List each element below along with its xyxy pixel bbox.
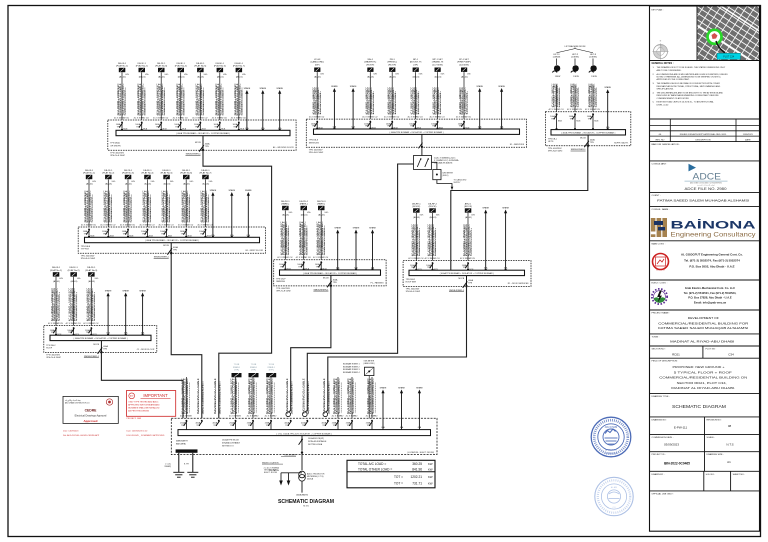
svg-text:TPN: TPN [68,332,72,334]
svg-text:AHU-1: AHU-1 [465,202,472,205]
svg-text:N.T.S: N.T.S [726,442,733,446]
svg-text:DB-1F-1: DB-1F-1 [69,267,78,269]
svg-text:BAR (MEB): BAR (MEB) [176,443,186,446]
svg-text:TPN: TPN [181,425,185,427]
svg-text:SPARE: SPARE [604,86,611,89]
svg-text:(A1-01): (A1-01) [86,182,93,185]
svg-text:(13KW): (13KW) [553,57,561,59]
svg-text:SPARE: SPARE [416,387,423,390]
svg-text:DRAWN BY :: DRAWN BY : [652,473,665,476]
svg-text:2x(4C X 185MM2) XLPE: 2x(4C X 185MM2) XLPE [291,384,293,415]
svg-text:KW: KW [428,467,433,471]
svg-text:LIFT MACHINE ROOM: LIFT MACHINE ROOM [565,45,586,48]
svg-text:P.O. Box 5552, Abu Dhabi - U.A: P.O. Box 5552, Abu Dhabi - U.A.E [689,264,734,268]
svg-text:WITH ADJUSTABLE: WITH ADJUSTABLE [308,440,327,443]
svg-text:DRAWING TITLE :: DRAWING TITLE : [652,395,671,398]
svg-text:1600A MCCB(4P): 1600A MCCB(4P) [308,437,324,440]
svg-text:TPN: TPN [86,332,90,334]
svg-text:( 400A TPN BUSBAR + ISOLATOR +: ( 400A TPN BUSBAR + ISOLATOR + COPPER BU… [73,337,127,340]
svg-text:SPARE: SPARE [380,387,387,390]
svg-text:R1 - ROOF SERVICES: R1 - ROOF SERVICES [508,283,529,285]
svg-text:(FLAT No.5): (FLAT No.5) [161,172,173,175]
svg-text:841.96: 841.96 [412,467,422,471]
svg-text:SPARE: SPARE [331,85,338,88]
svg-text:(A1-01): (A1-01) [164,182,171,185]
svg-text:( 400A TPN BUSBAR + ISOLATOR +: ( 400A TPN BUSBAR + ISOLATOR + COPPER BU… [176,132,230,135]
svg-text:03/09/2023: 03/09/2023 [664,442,679,446]
svg-text:TPN: TPN [195,127,199,129]
svg-text:LIFTS: LIFTS [548,141,554,143]
svg-text:TPN DB-P: TPN DB-P [276,278,286,280]
svg-text:PROJECT NAME :: PROJECT NAME : [652,312,671,315]
svg-text:C34: C34 [728,352,734,356]
svg-text:SPARE: SPARE [353,227,360,230]
svg-text:4C X 35MM2: 4C X 35MM2 [265,416,278,418]
svg-text:4C X 35MM2: 4C X 35MM2 [332,416,345,418]
svg-text:MCCB: MCCB [93,344,99,346]
svg-text:TPN: TPN [302,425,306,427]
svg-text:kWh: kWh [223,74,227,76]
svg-text:APPROVED SWITCHGEARS AND: APPROVED SWITCHGEARS AND [128,403,160,406]
svg-text:kWh: kWh [209,181,213,183]
svg-text:(PARK.): (PARK.) [281,203,289,206]
svg-text:(A1-01): (A1-01) [183,182,190,185]
svg-text:13KW: 13KW [591,76,597,78]
svg-text:TPN: TPN [136,127,140,129]
svg-text:TPN: TPN [387,126,391,128]
svg-text:WH-1: WH-1 [368,59,374,61]
svg-text:SCALE :: SCALE : [707,436,716,439]
svg-text:DB-RF-2: DB-RF-2 [428,203,437,205]
svg-text:(A1-01): (A1-01) [71,280,78,283]
svg-text:360.25: 360.25 [412,462,422,466]
svg-text:kWh: kWh [374,73,378,75]
svg-text:TPN: TPN [285,425,289,427]
svg-text:TPN: TPN [103,348,107,350]
svg-text:ONLY TYPE TESTED AND ADDC: ONLY TYPE TESTED AND ADDC [128,400,159,403]
svg-text:CLIENT :: CLIENT : [652,195,661,197]
svg-text:DB-5F-1: DB-5F-1 [182,170,191,172]
svg-text:TPN: TPN [196,425,200,427]
svg-text:TPN: TPN [463,267,467,269]
svg-text:BAİNONA: BAİNONA [671,219,756,232]
svg-text:TPN: TPN [367,425,371,427]
svg-text:BUSBAR RISER 4: BUSBAR RISER 4 [343,371,360,374]
svg-text:1:2000: 1:2000 [658,47,663,49]
svg-text:(A1-01): (A1-01) [301,213,308,216]
svg-text:(TYP.): (TYP.) [269,369,274,371]
svg-text:APPROVED BY THE CONSULTANT.: APPROVED BY THE CONSULTANT. [657,78,690,81]
svg-text:B1 - FIRST FLOOR: B1 - FIRST FLOOR [246,250,264,252]
svg-text:KW: KW [428,475,433,479]
svg-text:(A1-01): (A1-01) [435,75,442,78]
svg-text:(BULK): (BULK) [443,175,449,177]
svg-text:TPN: TPN [322,425,326,427]
svg-text:(ROOF): (ROOF) [388,64,396,66]
svg-text:(FLAT No.1): (FLAT No.1) [50,269,62,272]
svg-text:KEY PLAN :: KEY PLAN : [652,9,664,12]
svg-text:4C X 35MM2: 4C X 35MM2 [346,416,359,418]
svg-text:PARKING: PARKING [276,280,285,283]
svg-text:SPARE: SPARE [210,189,217,192]
svg-text:(BOOST. P): (BOOST. P) [410,62,422,64]
svg-text:TPN: TPN [333,282,337,284]
svg-text:KW: KW [428,462,433,466]
svg-text:1202.21: 1202.21 [410,475,422,479]
svg-text:4C X 16MM2 + 16MM2 ECC: 4C X 16MM2 + 16MM2 ECC [373,378,375,414]
svg-text:(LANDLORD): (LANDLORD) [364,362,375,365]
svg-text:E-PW-111: E-PW-111 [674,425,688,429]
svg-text:S1 - SERVICES: S1 - SERVICES [510,144,525,146]
svg-text:DEVELOPMENT OF: DEVELOPMENT OF [688,316,719,320]
svg-text:SPARE: SPARE [398,387,405,390]
svg-text:OFFICIAL USE ONLY :: OFFICIAL USE ONLY : [652,492,675,495]
svg-text:COMMISSION DATE :: COMMISSION DATE : [652,436,674,439]
svg-text:2x(4C X 185MM2) XLPE: 2x(4C X 185MM2) XLPE [202,384,204,415]
svg-text:BIN-2022-0C0465: BIN-2022-0C0465 [664,461,690,465]
svg-text:(FLAT No.3): (FLAT No.3) [155,65,167,68]
svg-text:DISTRIBUTION: DISTRIBUTION [605,453,618,455]
svg-text:1600A RATED: 1600A RATED [296,493,309,496]
svg-text:LP-GF: LP-GF [314,59,321,61]
svg-text:SETTING I I I: SETTING I I I [222,446,234,448]
svg-text:PR-1: PR-1 [390,59,396,61]
svg-text:(FLAT No.7): (FLAT No.7) [233,65,245,68]
svg-text:REVISION NO :: REVISION NO : [707,419,723,421]
svg-text:ROOF SER: ROOF SER [406,282,417,284]
svg-text:TPN: TPN [312,126,316,128]
svg-text:(PRESS.): (PRESS.) [387,62,397,64]
svg-text:kWh: kWh [289,212,293,214]
svg-text:(A1-01): (A1-01) [465,216,472,219]
svg-text:MCCB: MCCB [195,142,201,144]
svg-text:(A1-01): (A1-01) [413,216,420,219]
svg-text:SPARE: SPARE [350,85,357,88]
svg-text:DRAWING NO :: DRAWING NO : [652,418,668,421]
svg-text:kWh: kWh [190,181,194,183]
svg-text:TPN: TPN [213,425,217,427]
svg-text:H.S. NO :: H.S. NO : [706,474,716,476]
svg-text:kWh: kWh [145,74,149,76]
svg-text:TPN: TPN [205,146,209,148]
svg-text:kWh: kWh [77,278,81,280]
svg-text:DRAWING SIZE :: DRAWING SIZE : [707,453,725,456]
svg-text:(A1-01): (A1-01) [125,182,132,185]
svg-text:Electrical Drawings Approval: Electrical Drawings Approval [75,415,107,418]
svg-text:SPARE: SPARE [476,85,483,88]
svg-text:kWh: kWh [419,73,423,75]
svg-text:Ref: ADD-2023-EL-000345-CEDRE-: Ref: ADD-2023-EL-000345-CEDRE-APP [63,434,100,437]
svg-text:(A1-01): (A1-01) [178,75,185,78]
svg-text:(PARK.): (PARK.) [317,203,325,206]
svg-text:(A1-01): (A1-01) [197,75,204,78]
svg-text:(A1-01): (A1-01) [139,75,146,78]
svg-text:TPN: TPN [181,234,185,236]
svg-text:SPARE: SPARE [498,85,505,88]
svg-text:TPN: TPN [432,126,436,128]
svg-text:TOTAL OTHER LOAD =: TOTAL OTHER LOAD = [358,467,392,471]
svg-text:Tel. (971-2) 5552574, Fax (971: Tel. (971-2) 5552574, Fax (971-2) 555257… [684,258,740,262]
svg-text:TPN: TPN [588,118,592,120]
svg-text:13KW: 13KW [555,76,561,78]
svg-text:SCHEMATIC DIAGRAM: SCHEMATIC DIAGRAM [278,499,334,505]
svg-text:AL GOOGFUT Engineering General: AL GOOGFUT Engineering General Cont. Co. [681,252,743,256]
svg-text:TPN: TPN [142,234,146,236]
svg-text:TPN: TPN [365,126,369,128]
svg-text:(A1-01): (A1-01) [430,216,437,219]
svg-text:3PH+N+E 50HZ: 3PH+N+E 50HZ [81,258,96,260]
svg-text:BUSBAR RISER 3: BUSBAR RISER 3 [343,368,360,371]
svg-text:PROJECT: 1049: PROJECT: 1049 [127,418,143,420]
svg-text:DB-5F-1: DB-5F-1 [216,63,225,65]
svg-text:731.71: 731.71 [412,481,422,485]
svg-text:BUSWAYS SHALL BE INSTALLED: BUSWAYS SHALL BE INSTALLED [128,406,160,409]
svg-text:(A1-01): (A1-01) [236,75,243,78]
svg-text:(FIRE PUMP): (FIRE PUMP) [457,62,471,64]
svg-text:A1 - GROUND FLOOR: A1 - GROUND FLOOR [273,146,294,149]
svg-text:kWh: kWh [184,74,188,76]
svg-text:(A1-01): (A1-01) [88,280,95,283]
svg-text:BUSBAR RISER 1: BUSBAR RISER 1 [343,363,360,366]
svg-text:DB-PK-3: DB-PK-3 [317,201,326,203]
svg-text:( 400A TPN BUSBAR + ISOLATOR +: ( 400A TPN BUSBAR + ISOLATOR + COPPER BU… [303,272,357,275]
svg-text:SECTOR NO :: SECTOR NO : [652,349,667,351]
svg-text:TOWN :: TOWN : [652,336,660,338]
svg-text:COMMENCEMENT OF ANY WORK.: COMMENCEMENT OF ANY WORK. [657,97,690,100]
svg-text:(FLAT No.3): (FLAT No.3) [85,269,97,272]
svg-text:kWh: kWh [320,73,324,75]
svg-text:(A1-01): (A1-01) [217,75,224,78]
svg-text:TPN: TPN [411,267,415,269]
svg-text:(A1-01): (A1-01) [202,182,209,185]
svg-text:kWh: kWh [92,181,96,183]
svg-text:(A1-01): (A1-01) [105,182,112,185]
svg-text:TPN: TPN [590,142,594,144]
svg-text:TPN: TPN [333,425,337,427]
svg-text:SPARE: SPARE [276,87,283,90]
svg-text:SECTOR RD21, PLOT C34,: SECTOR RD21, PLOT C34, [677,381,727,385]
svg-text:TPN: TPN [103,234,107,236]
svg-text:COMMERCIAL/RESIDENTIAL BUILDIN: COMMERCIAL/RESIDENTIAL BUILDING ON [659,376,747,380]
svg-text:TPN: TPN [266,425,270,427]
svg-text:kWh: kWh [95,278,99,280]
svg-text:ELECT. CONT. :: ELECT. CONT. : [652,283,668,285]
svg-text:(2x7.5KW): (2x7.5KW) [432,64,443,66]
svg-text:DB-2F-1: DB-2F-1 [87,267,96,269]
svg-text:SHEET NO :: SHEET NO : [733,474,746,476]
svg-text:TPN: TPN [298,266,302,268]
svg-text:ROOF: ROOF [46,348,53,350]
svg-text:(FLAT No.6): (FLAT No.6) [180,172,192,175]
svg-text:4C X 16MM2 + 16MM2 ECC: 4C X 16MM2 + 16MM2 ECC [236,378,238,414]
svg-text:TPN: TPN [280,266,284,268]
svg-text:TPN DB-C: TPN DB-C [46,345,56,347]
svg-text:(GF): (GF) [413,64,418,66]
svg-text:4C X 35MM2: 4C X 35MM2 [366,416,379,418]
svg-text:KW: KW [428,481,433,485]
svg-text:LIFT-3: LIFT-3 [590,54,597,56]
svg-text:kWh: kWh [420,214,424,216]
svg-text:65KA ADJUSTABLE: 65KA ADJUSTABLE [222,442,241,445]
svg-text:SPECIFICATIONS.: SPECIFICATIONS. [657,88,675,91]
svg-text:4C X 35MM2: 4C X 35MM2 [180,416,193,418]
svg-text:TPN: TPN [233,127,237,129]
svg-text:kWh: kWh [165,74,169,76]
svg-text:TPN: TPN [51,332,55,334]
svg-text:4C X 35MM2: 4C X 35MM2 [229,416,242,418]
svg-text:PROJECT ID :: PROJECT ID : [652,454,667,456]
svg-text:TPN: TPN [427,267,431,269]
svg-text:3PH+N+E 50HZ: 3PH+N+E 50HZ [406,291,421,293]
svg-text:RESOLVED BY BAINONA ENGINEERIN: RESOLVED BY BAINONA ENGINEERING CONSULTA… [657,94,720,97]
svg-text:(FLAT No.2): (FLAT No.2) [102,172,114,175]
svg-text:( 1 No. 1600A TPN+50% ISOLATOR: ( 1 No. 1600A TPN+50% ISOLATOR + COPPER … [276,432,332,435]
svg-text:400/5A: 400/5A [307,478,314,481]
svg-text:(FLAT No.2): (FLAT No.2) [136,65,148,68]
svg-text:TPN: TPN [123,234,127,236]
svg-text:DB-0F-1: DB-0F-1 [52,267,61,269]
svg-text:P.O. Box 27828, Abu Dhabi - U.: P.O. Box 27828, Abu Dhabi - U.A.E [688,296,732,300]
svg-text:SUPPLY: SUPPLY [454,182,462,184]
svg-text:TYP FLR: TYP FLR [81,249,90,251]
svg-text:4C X 16MM2 + 16MM2 ECC: 4C X 16MM2 + 16MM2 ECC [187,378,189,414]
svg-text:SPARE: SPARE [369,227,376,230]
svg-text:DB-PK-2: DB-PK-2 [299,201,308,203]
svg-text:2x(4C X 185MM2) XLPE: 2x(4C X 185MM2) XLPE [219,384,221,415]
svg-text:3PH+N+E 50HZ: 3PH+N+E 50HZ [276,291,291,293]
svg-text:Grab Electro-Mechanical Cont.: Grab Electro-Mechanical Cont. Co. LLC [685,286,735,290]
svg-text:kWh: kWh [204,74,208,76]
svg-text:(ROOF): (ROOF) [464,206,472,208]
svg-text:(ROOF): (ROOF) [412,206,420,208]
svg-text:( 400A TPN BUSBAR + ISOLATOR +: ( 400A TPN BUSBAR + ISOLATOR + COPPER BU… [561,132,615,135]
svg-text:DB-2F-1: DB-2F-1 [157,63,166,65]
svg-text:APPROVED: APPROVED [605,449,617,452]
svg-text:kWh: kWh [170,181,174,183]
svg-text:1600A TPN MCCB: 1600A TPN MCCB [222,439,239,442]
svg-text:SETTING 65KA: SETTING 65KA [308,443,323,446]
svg-text:ARE TO BE CONSIDERED.: ARE TO BE CONSIDERED. [657,69,682,72]
svg-text:kWh: kWh [59,278,63,280]
svg-text:TPN: TPN [551,118,555,120]
svg-text:3PH+N+E 50HZ: 3PH+N+E 50HZ [309,152,324,154]
svg-text:2x(4C X 185MM2) XLPE: 2x(4C X 185MM2) XLPE [308,384,310,415]
svg-text:kWh: kWh [151,181,155,183]
svg-text:DESCRIPTION: DESCRIPTION [696,139,711,141]
svg-text:(A1-01): (A1-01) [158,75,165,78]
svg-text:LIFT-2: LIFT-2 [572,54,579,56]
svg-text:MCCB: MCCB [459,278,465,280]
svg-text:GF SHOPS: GF SHOPS [110,145,121,147]
svg-text:P1 - PARKING: P1 - PARKING [371,282,385,285]
svg-text:FP-1 SET: FP-1 SET [459,59,469,61]
svg-text:(13KW): (13KW) [571,57,579,59]
svg-text:BUSBAR RISER 2: BUSBAR RISER 2 [343,365,360,368]
svg-text:MCCB: MCCB [323,278,329,280]
svg-text:WP-1 SET: WP-1 SET [432,59,443,61]
svg-text:(A1-01): (A1-01) [314,75,321,78]
svg-text:(FLAT No.2): (FLAT No.2) [68,269,80,272]
svg-text:95MM2): 95MM2) [164,466,171,468]
svg-text:Date: 14/09/2023: Date: 14/09/2023 [63,429,79,432]
svg-text:AL AIN: AL AIN [611,486,618,489]
svg-text:THE DRAWING IS NOT TO BE SCALE: THE DRAWING IS NOT TO BE SCALED. THE STA… [657,66,726,69]
svg-text:DB-6F-1: DB-6F-1 [201,170,210,172]
svg-text:kWh: kWh [307,212,311,214]
svg-text:ISSUED FOR AUTHORITY APPROVAL-: ISSUED FOR AUTHORITY APPROVAL- RED. MOD [680,133,727,136]
svg-text:TPN DB-R: TPN DB-R [406,279,416,281]
svg-text:(ROOF): (ROOF) [429,206,437,208]
svg-text:SPARE: SPARE [105,290,112,293]
svg-text:SPARE: SPARE [259,87,266,90]
svg-text:MADINAT AL RIYAD-ABU DHABI.: MADINAT AL RIYAD-ABU DHABI. [671,386,735,390]
svg-text:(LOCATION : ELECT. ROOM): (LOCATION : ELECT. ROOM) [407,451,434,454]
svg-text:SPARE: SPARE [228,189,235,192]
svg-text:TPN: TPN [230,425,234,427]
svg-text:DB-RF-1: DB-RF-1 [412,203,421,205]
svg-text:EXISTING ROAD LEVEL IS 16.35 M: EXISTING ROAD LEVEL IS 16.35 M.S.L. TO A… [657,101,715,104]
svg-text:SUPPLY AUTH.: SUPPLY AUTH. [614,142,629,145]
svg-text:(TYP.): (TYP.) [234,369,239,371]
svg-text:3PH+N+E 50HZ: 3PH+N+E 50HZ [110,155,125,157]
svg-text:kWh: kWh [467,73,471,75]
svg-text:CO: CO [613,507,616,509]
svg-text:2x(4C X 185MM2) XLPE: 2x(4C X 185MM2) XLPE [328,384,330,415]
svg-text:4C X 16MM2 + 16MM2 ECC: 4C X 16MM2 + 16MM2 ECC [339,378,341,414]
svg-text:E-NO:300345 _ SCHEMATIC-APPROV: E-NO:300345 _ SCHEMATIC-APPROVED [127,434,165,437]
svg-text:SMDB LOCATION: SMDB LOCATION [262,461,279,464]
svg-text:BAR FOR CANCELLATION :: BAR FOR CANCELLATION : [652,143,681,146]
svg-text:LIFT-1: LIFT-1 [553,54,560,56]
svg-text:DB-1F-1: DB-1F-1 [138,63,147,65]
svg-text:TPN: TPN [84,234,88,236]
svg-text:(A1-01): (A1-01) [461,75,468,78]
svg-text:Approved: Approved [83,419,97,423]
svg-text:LEVEL ±0.00: LEVEL ±0.00 [657,104,670,106]
svg-text:3PH+N+E 50HZ: 3PH+N+E 50HZ [548,151,563,153]
svg-text:TPN: TPN [468,282,472,284]
svg-text:(GF): (GF) [315,64,320,66]
svg-text:DB-2F-1: DB-2F-1 [124,170,133,172]
svg-text:( 400A TPN BUSBAR + ISOLATOR +: ( 400A TPN BUSBAR + ISOLATOR + COPPER BU… [145,239,199,242]
svg-text:TPN: TPN [347,425,351,427]
svg-text:Engineering Consultancy: Engineering Consultancy [671,233,756,239]
svg-text:DB-0F-1: DB-0F-1 [118,63,127,65]
svg-text:SPARE: SPARE [139,290,146,293]
svg-text:(TRANS. P): (TRANS. P) [432,61,444,64]
svg-text:(FLAT No.3): (FLAT No.3) [122,172,134,175]
svg-text:TOT =: TOT = [394,481,403,485]
svg-text:C1 - ROOF FLOOR: C1 - ROOF FLOOR [137,349,155,351]
svg-text:GROUND FLR: GROUND FLR [264,470,277,472]
svg-text:(A1-01): (A1-01) [144,182,151,185]
svg-text:FATIMA SAEED SALEM MUHAQAB ALS: FATIMA SAEED SALEM MUHAQAB ALSHAMSI [657,198,749,202]
svg-text:SPARE: SPARE [482,207,489,210]
svg-text:(FLAT No.4): (FLAT No.4) [175,65,187,68]
svg-text:CONSULTANT :: CONSULTANT : [652,162,668,165]
svg-text:kWh METER: kWh METER [364,360,375,362]
svg-text:TPN: TPN [459,126,463,128]
svg-text:kWh: kWh [242,74,246,76]
svg-text:NOTED OTHERWISE. ALL DIMENSION: NOTED OTHERWISE. ALL DIMENSIONS TO BE VE… [657,76,722,79]
svg-text:SPARE: SPARE [245,189,252,192]
svg-text:(FLAT No.4): (FLAT No.4) [141,172,153,175]
svg-text:4C X 16MM2 + 16MM2 ECC: 4C X 16MM2 + 16MM2 ECC [272,378,274,414]
svg-text:kWh: kWh [125,74,129,76]
svg-text:Date: 14/09/2023 11:20: Date: 14/09/2023 11:20 [127,429,149,432]
svg-text:MCCB: MCCB [580,138,586,140]
svg-text:4C X 35MM2: 4C X 35MM2 [247,416,260,418]
